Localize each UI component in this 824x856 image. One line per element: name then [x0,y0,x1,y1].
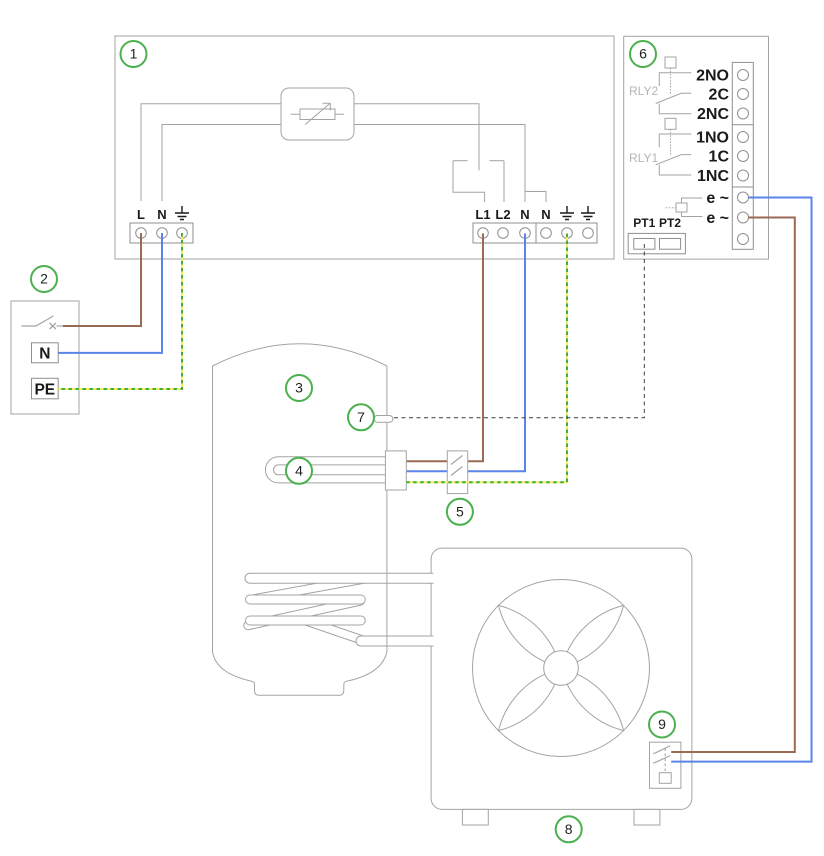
heat pump foot left [462,809,488,825]
relay RLY1 actuator dotted [670,129,672,155]
svg-text:5: 5 [456,503,464,519]
heat pump foot right [634,809,660,825]
terminal strip 9-pole [732,62,753,249]
svg-text:L1: L1 [475,207,490,222]
wire N to output terminals [354,125,525,203]
svg-text:PE: PE [34,381,55,398]
heater flange [385,451,406,490]
fan blade NW [498,605,554,661]
svg-text:RLY2: RLY2 [629,84,658,98]
ground symbol output 1 [560,206,574,220]
wire sensor dashed PT1 to probe [393,244,644,418]
svg-text:N: N [520,207,529,222]
svg-text:9: 9 [658,716,666,732]
svg-text:e ~: e ~ [706,210,729,227]
fan blade SE [567,674,623,730]
coil pipe to heat pump bottom [356,636,433,646]
svg-text:RLY1: RLY1 [629,151,658,165]
wire brown e~ to heat pump [671,218,795,753]
label circle 9 [649,712,675,738]
relay RLY1 contacts [656,134,692,175]
box9 contact blades [653,746,670,773]
label circle 7 [348,404,374,430]
wire blue e~ to heat pump [671,198,811,762]
label circle 8 [556,816,582,842]
wire green-yellow PE to heater [406,234,567,483]
coil pipe to heat pump top [245,573,434,583]
svg-text:1NO: 1NO [696,130,729,147]
heating element E1 [265,457,385,483]
switch S1 breaker [21,316,63,329]
svg-text:1NC: 1NC [697,168,729,185]
svg-text:3: 3 [295,380,303,396]
svg-text:7: 7 [357,409,365,425]
fan blade NE [567,605,623,661]
resistor RT thermostat symbol [281,88,354,140]
PT1 socket [634,239,655,250]
svg-text:PT1: PT1 [633,216,655,230]
fan shroud circle [473,580,650,757]
svg-text:e ~: e ~ [706,190,729,207]
relay RLY2 coil [665,57,676,68]
label circle 2 [31,266,57,292]
box U1 controller enclosure [115,36,614,259]
coil turn 3 [250,616,361,626]
ground symbol input PE [175,206,189,220]
svg-text:2NO: 2NO [696,68,729,85]
relay RLY2 actuator dotted [670,68,672,94]
node PE box [32,378,59,399]
label circle 6 [630,41,656,67]
coil turn 2 [250,595,361,605]
label circle 5 [447,499,473,525]
svg-text:L: L [137,207,145,222]
coil diagonal turn 2 [248,601,360,626]
relay RLY2 contacts [656,73,692,114]
svg-text:6: 6 [639,46,647,62]
wire L internal [141,104,281,201]
wire thermostat to contact [354,104,479,171]
svg-text:4: 4 [295,462,303,478]
PT sensor connector block [628,233,685,253]
svg-text:2: 2 [40,271,48,287]
strip circles [738,70,749,245]
svg-text:8: 8 [565,821,573,837]
fan hub [544,651,579,686]
tank T1 outline [213,344,387,696]
terminal block output L1 L2 N [473,223,597,243]
compressor box 9 [650,742,681,788]
svg-text:N: N [541,207,550,222]
coil diagonal turn 1 [251,578,368,599]
coil diagonal turn 3 [305,621,365,642]
svg-text:2C: 2C [709,87,730,104]
wire brown supply L [63,233,141,326]
svg-text:PT2: PT2 [659,216,681,230]
wire blue supply N [58,233,162,353]
cutout 5 contact blades [451,456,463,476]
terminal block input L N PE [130,223,193,243]
svg-text:L2: L2 [495,207,510,222]
svg-text:N: N [157,207,166,222]
wire brown L1 to heater [406,234,483,462]
heat pump 8 body [431,548,692,809]
fan blade SW [498,674,554,730]
box9 coil square [659,773,671,784]
wire green-yellow supply PE [58,233,182,389]
wire N internal [162,125,281,202]
label circle 1 [121,41,147,67]
svg-text:2NC: 2NC [697,106,729,123]
node N box [32,343,59,363]
thermal cutout contact assembly [453,161,504,202]
svg-text:1C: 1C [709,149,730,166]
PT2 socket [660,239,681,250]
relay RLY1 coil [665,118,676,129]
wire N branch to second N terminal [525,192,546,203]
box 6 thermostat controller [624,36,769,259]
heater switch symbol [666,198,703,217]
wire blue N to heater [406,234,525,472]
label circle 4 [286,458,312,484]
svg-text:N: N [39,346,50,363]
cutout 5 box [447,451,467,494]
ground symbol output 2 [581,206,595,220]
sensor probe 7 [374,416,393,423]
svg-text:1: 1 [130,46,138,62]
label circle 3 [286,375,312,401]
box 2 supply [11,301,79,414]
